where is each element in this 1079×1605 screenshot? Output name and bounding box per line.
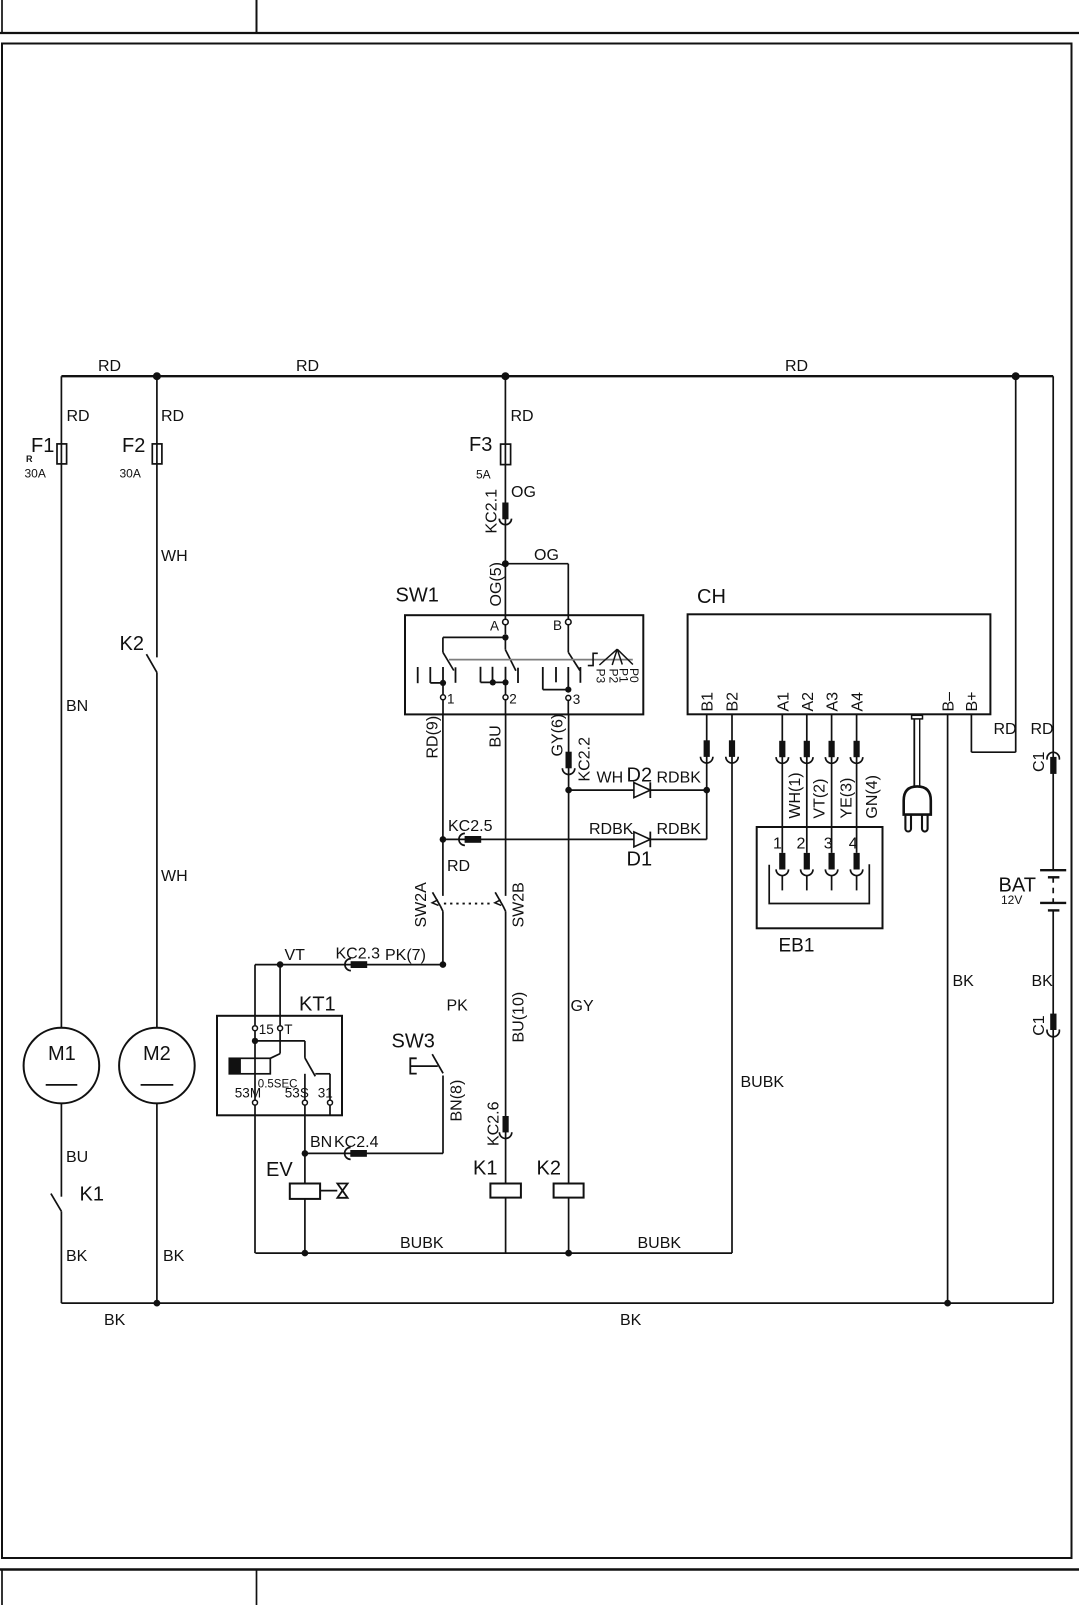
svg-text:BK: BK (620, 1312, 642, 1329)
contact arm KT1 (305, 1058, 315, 1076)
node junction OG split (502, 560, 509, 567)
svg-text:30A: 30A (120, 467, 141, 481)
svg-text:1: 1 (773, 835, 782, 852)
svg-text:BK: BK (104, 1312, 126, 1329)
svg-text:BUBK: BUBK (638, 1235, 682, 1252)
svg-text:4: 4 (849, 835, 858, 852)
svg-text:5A: 5A (476, 468, 491, 482)
node junction F2 on top rail (153, 372, 161, 380)
svg-text:2: 2 (509, 692, 517, 707)
svg-text:RDBK: RDBK (657, 821, 702, 838)
svg-text:RDBK: RDBK (657, 770, 702, 787)
svg-text:A1: A1 (775, 692, 792, 712)
node junction F3 on top rail (501, 372, 509, 380)
node SW1 group3 dot (565, 687, 571, 693)
svg-text:3: 3 (573, 692, 581, 707)
wire top RD supply rail (61, 375, 1053, 377)
step symbol SW1 (588, 653, 598, 665)
svg-text:OG: OG (511, 484, 536, 501)
pin 1 SW1 (441, 683, 446, 714)
solenoid valve EV coil (290, 1184, 320, 1199)
svg-text:RD: RD (161, 408, 184, 425)
svg-text:BN: BN (66, 698, 88, 715)
svg-text:WH(1): WH(1) (787, 772, 804, 818)
EB1 internal bracket (769, 864, 869, 903)
title block frame bottom band (0, 1570, 1079, 1605)
svg-text:RD: RD (1031, 721, 1054, 738)
svg-text:31: 31 (318, 1086, 333, 1101)
svg-text:KC2.5: KC2.5 (448, 818, 493, 835)
node SW1 group1 dot (440, 680, 446, 686)
svg-text:53S: 53S (285, 1086, 309, 1101)
pin B SW1 (566, 619, 572, 652)
SW1 contact group 2 (481, 667, 519, 683)
node junction B- on BK rail (944, 1300, 951, 1307)
wire KC2.3 run VT/PK(7) (255, 964, 443, 966)
wire 15 branch to contact (255, 1041, 305, 1058)
svg-text:EB1: EB1 (779, 936, 815, 957)
svg-text:3: 3 (824, 835, 833, 852)
wire bottom BK rail (61, 1302, 1053, 1304)
svg-text:RD: RD (785, 358, 808, 375)
pin T KT1 (270, 1026, 282, 1059)
svg-text:15: 15 (259, 1022, 274, 1037)
svg-text:SW3: SW3 (392, 1031, 435, 1053)
connector B1 (701, 740, 713, 763)
wire SW1 A to wiper 1 (443, 637, 506, 670)
timer relay KT1 block (217, 1016, 342, 1116)
switch SW2B (495, 892, 506, 911)
svg-text:KC2.6: KC2.6 (486, 1101, 503, 1146)
svg-text:30A: 30A (25, 467, 46, 481)
pin 53S KT1 (302, 1074, 307, 1184)
svg-text:KC2.3: KC2.3 (336, 946, 381, 963)
mechanical link line SW1 (449, 659, 633, 661)
svg-text:RD: RD (994, 721, 1017, 738)
switch SW2A (432, 892, 443, 911)
svg-text:BU(10): BU(10) (511, 992, 528, 1043)
connector EB1 pin3 (825, 853, 837, 891)
svg-text:YE(3): YE(3) (839, 778, 856, 819)
relay contact K1 (main) (51, 1194, 62, 1212)
pin 15 KT1 (253, 1026, 258, 1100)
wire VT to KT1 pin T (279, 965, 281, 1026)
svg-text:BUBK: BUBK (741, 1074, 785, 1091)
svg-text:P0: P0 (627, 668, 641, 683)
svg-text:GY: GY (571, 998, 594, 1015)
diode D2 (634, 782, 650, 798)
wire SW1 pin2 BU down (505, 714, 507, 896)
wire M1 to K1 BU (60, 1103, 62, 1196)
wire left end to KT1 pin 15 (254, 965, 256, 1026)
node junction 15 branch (252, 1038, 258, 1044)
wire K1 coil to BUBK (505, 1198, 507, 1254)
fuse F1 (57, 444, 67, 464)
node SW1 A dot (502, 634, 508, 640)
relay coil K1 (490, 1184, 521, 1198)
wire D2 anode WH (569, 789, 634, 791)
svg-text:CH: CH (697, 586, 726, 608)
wire CH B- pin BK (947, 714, 949, 1303)
svg-text:K1: K1 (80, 1184, 104, 1206)
relay coil K2 (554, 1184, 584, 1198)
svg-text:BN: BN (310, 1134, 332, 1151)
svg-text:RD(9): RD(9) (424, 716, 441, 759)
svg-text:53M: 53M (235, 1086, 261, 1101)
wire KC2.4 run (305, 1076, 443, 1154)
svg-text:KT1: KT1 (299, 994, 336, 1016)
mechanical link SW2A-SW2B dotted (444, 903, 493, 905)
svg-text:F1: F1 (31, 435, 54, 457)
svg-text:M1: M1 (48, 1043, 76, 1065)
wire SW1 B wiper 3 (568, 652, 580, 670)
svg-text:RDBK: RDBK (589, 821, 634, 838)
svg-text:B–: B– (940, 692, 957, 712)
svg-text:12V: 12V (1001, 893, 1022, 907)
relay contact K2 (main) (146, 654, 157, 672)
fuse F3 (501, 444, 511, 465)
wire K2 to M2 WH (156, 672, 158, 1028)
svg-text:A3: A3 (824, 692, 841, 712)
svg-text:A2: A2 (800, 692, 817, 712)
wire SW2B BU(10) down to K1 (505, 911, 507, 1183)
wire D2 cathode RDBK (650, 789, 706, 791)
motor M1 (24, 1028, 100, 1104)
pin 3 SW1 (566, 695, 571, 714)
node junction KC2.5 tap on RD(9) wire (440, 836, 447, 843)
svg-text:BK: BK (163, 1248, 185, 1265)
svg-text:C1: C1 (1031, 1015, 1048, 1036)
battery BAT 12V (1040, 870, 1066, 910)
connector KC A3 (825, 741, 837, 764)
connector EB1 pin4 (850, 853, 862, 891)
wire F2 branch RD/WH (156, 376, 158, 657)
node junction BN KC2.4 (302, 1150, 309, 1157)
wire SW2A to PK junction (442, 911, 444, 964)
svg-text:1: 1 (447, 692, 455, 707)
timer element KT1 (229, 1058, 270, 1074)
title block frame top band (0, 0, 1079, 33)
wire SW1 pin1 RD(9) down (442, 714, 444, 896)
wire BUBK bottom run (255, 1252, 732, 1254)
connector B2 (726, 740, 738, 763)
svg-text:D1: D1 (627, 849, 653, 871)
svg-text:BK: BK (953, 973, 975, 990)
connector KC2.3 (345, 959, 367, 971)
node junction D2/D1/B1 (703, 787, 710, 794)
node junction PK(7) (440, 961, 447, 968)
svg-text:VT(2): VT(2) (812, 779, 829, 819)
svg-text:M2: M2 (143, 1043, 171, 1065)
svg-text:BK: BK (66, 1248, 88, 1265)
node junction M2 on BK rail (154, 1300, 161, 1307)
svg-text:RD: RD (511, 408, 534, 425)
connector KC2.2 (562, 752, 574, 775)
wire M2 to BK rail (156, 1103, 158, 1303)
connector block EB1 (757, 827, 883, 928)
SW1 contact group 1 (418, 667, 456, 683)
svg-text:RD: RD (98, 358, 121, 375)
position tree P0-P3 SW1 (599, 649, 633, 665)
svg-text:C1: C1 (1031, 751, 1048, 772)
valve symbol EV (320, 1184, 348, 1198)
svg-text:SW1: SW1 (396, 585, 439, 607)
wire BAT negative BK (1052, 910, 1054, 1303)
SW1 contact group 3 (543, 667, 581, 690)
svg-text:PK(7): PK(7) (385, 947, 426, 964)
svg-text:B: B (553, 618, 562, 633)
wire K1 to BK rail (60, 1211, 62, 1303)
wire CH B+ pin to right riser (971, 376, 1015, 752)
connector KC2.4 (345, 1147, 367, 1159)
svg-text:RD: RD (447, 858, 470, 875)
svg-text:BUBK: BUBK (400, 1235, 444, 1252)
wire K2 coil to BUBK (568, 1198, 570, 1254)
svg-text:A: A (490, 619, 499, 634)
svg-text:K2: K2 (537, 1158, 561, 1180)
wire OG branch to SW1 B (505, 564, 568, 620)
svg-text:RD: RD (67, 408, 90, 425)
wire CH A3 pin YE(3) (831, 714, 833, 853)
svg-text:PK: PK (447, 998, 469, 1015)
svg-text:WH: WH (597, 770, 624, 787)
wire F1 branch RD/BN (60, 376, 62, 1028)
svg-text:BU: BU (66, 1149, 88, 1166)
connector KC A4 (850, 741, 862, 764)
svg-text:P3: P3 (594, 669, 608, 684)
AC plug of CH (904, 715, 931, 831)
svg-text:K2: K2 (120, 633, 144, 655)
node junction right riser on top rail (1012, 372, 1020, 380)
svg-text:OG: OG (534, 547, 559, 564)
connector KC2.6 (499, 1116, 511, 1139)
svg-text:KC2.2: KC2.2 (576, 737, 593, 782)
connector KC2.5 (459, 833, 481, 845)
svg-text:WH: WH (161, 548, 188, 565)
svg-text:BK: BK (1032, 973, 1054, 990)
svg-text:A4: A4 (849, 692, 866, 712)
connector C1 upper (1047, 752, 1059, 774)
svg-text:VT: VT (285, 947, 306, 964)
svg-text:GY(6): GY(6) (550, 714, 567, 757)
svg-text:SW2A: SW2A (413, 882, 430, 928)
svg-text:KC2.1: KC2.1 (484, 489, 501, 534)
wire BAT riser RD (1052, 376, 1054, 870)
svg-text:EV: EV (266, 1159, 293, 1181)
svg-text:RD: RD (296, 358, 319, 375)
node junction EV on BUBK (302, 1250, 309, 1257)
svg-text:GN(4): GN(4) (864, 775, 881, 819)
svg-text:BU: BU (487, 725, 504, 747)
node SW1 group2 dots (490, 679, 509, 685)
connector EB1 pin1 (776, 853, 788, 891)
fuse F2 (152, 444, 162, 464)
pin 31 KT1 (315, 1074, 332, 1116)
connector C1 lower (1047, 1014, 1059, 1037)
connector KC A2 (801, 741, 813, 764)
pin 53M KT1 (253, 1100, 258, 1253)
pin 2 SW1 (503, 682, 508, 714)
wire CH B2 pin BUBK riser (731, 714, 733, 1253)
switch SW3 (410, 1054, 443, 1073)
wire D2 junction down to D1 (706, 790, 708, 839)
svg-text:BN(8): BN(8) (449, 1080, 466, 1122)
switch SW1 block (405, 615, 643, 714)
svg-text:OG(5): OG(5) (488, 562, 505, 606)
svg-text:F3: F3 (469, 434, 492, 456)
svg-text:SW2B: SW2B (511, 882, 528, 927)
svg-text:KC2.4: KC2.4 (334, 1134, 379, 1151)
wire CH B1 pin (706, 714, 708, 790)
svg-text:F2: F2 (122, 435, 145, 457)
node junction D2 tap on GY wire (565, 787, 572, 794)
wire EV coil to BUBK (304, 1199, 306, 1253)
connector KC2.1 (499, 503, 511, 525)
svg-text:B+: B+ (964, 691, 981, 711)
wire CH A2 pin VT(2) (806, 714, 808, 853)
wire CH A1 pin WH(1) (781, 714, 783, 853)
svg-text:K1: K1 (473, 1158, 497, 1180)
diode D1 (634, 832, 650, 848)
wire CH A4 pin GN(4) (856, 714, 858, 853)
connector EB1 pin2 (801, 853, 813, 891)
svg-text:D2: D2 (627, 765, 653, 787)
charger CH block (688, 614, 991, 714)
svg-text:2: 2 (797, 835, 806, 852)
node junction VT (277, 961, 284, 968)
motor M2 (119, 1028, 195, 1104)
wire KC2.5 line RDBK (443, 838, 634, 840)
svg-text:T: T (284, 1022, 292, 1037)
svg-text:R: R (26, 454, 33, 464)
svg-text:WH: WH (161, 868, 188, 885)
svg-text:B1: B1 (700, 692, 717, 712)
connector KC A1 (776, 741, 788, 764)
pin A SW1 (503, 619, 509, 634)
svg-text:B2: B2 (725, 692, 742, 712)
wire SW1 pin3 GY down to K2 (568, 714, 570, 1183)
wire F3 branch RD/OG (504, 376, 506, 619)
wire D1 cathode RDBK (650, 838, 706, 840)
node junction K2 on BUBK (565, 1250, 572, 1257)
wire SW1 A wiper 2 (505, 637, 516, 670)
